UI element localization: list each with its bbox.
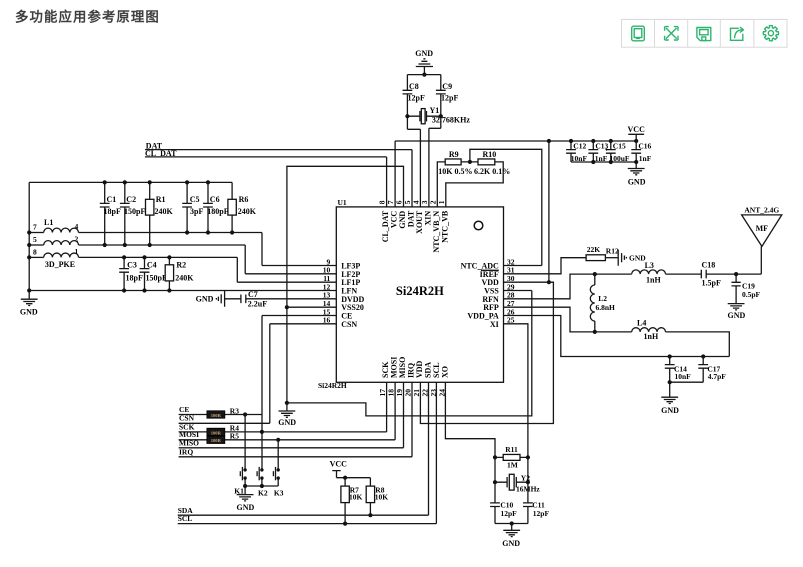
svg-text:GND: GND [502,539,520,548]
svg-text:100R: 100R [211,413,222,418]
crystal Y1 32.768KHz [407,115,440,117]
svg-text:L4: L4 [637,318,646,327]
svg-text:XI: XI [490,320,499,329]
capacitor C3 18pF [123,257,125,290]
svg-text:GND: GND [278,418,296,427]
svg-text:10K: 10K [349,493,363,502]
svg-text:SCL: SCL [178,514,193,523]
toolbar frame [622,19,788,47]
node: VCC rail junction x=593.3 [591,139,595,143]
svg-text:C1: C1 [107,195,117,204]
wire: pin 20 IRQ riser [411,382,413,457]
wire: DAT riser to pin 5 [411,150,413,207]
button K1 [243,468,246,471]
svg-text:ANT_2.4G: ANT_2.4G [744,206,779,215]
svg-text:R12: R12 [606,246,619,255]
wire: VDD riser from VCC rail to pin 30 [548,141,550,282]
capacitor C5 3pF [186,182,188,232]
capacitor C6 180pF [207,182,209,232]
svg-text:240K: 240K [238,207,257,216]
svg-text:12pF: 12pF [408,94,425,103]
svg-text:R1: R1 [156,195,166,204]
svg-text:CSN: CSN [341,320,357,329]
svg-text:C16: C16 [638,142,651,151]
svg-text:C18: C18 [702,261,716,270]
svg-text:NTC_VB: NTC_VB [440,210,449,243]
capacitor C14 10nF [668,354,672,358]
svg-text:1nH: 1nH [644,332,659,341]
svg-text:150pF: 150pF [124,207,145,216]
inductor L2 6.8nH [593,272,597,276]
svg-text:C3: C3 [127,260,137,269]
resistor R8 10K [369,478,371,516]
wire: pin 26 VDD_PA to C14/C17 row [504,316,730,357]
node: VCC rail junction x=636.2 [634,139,638,143]
svg-text:Y2: Y2 [521,474,530,483]
svg-text:U1: U1 [338,198,347,207]
svg-text:1.5pF: 1.5pF [702,278,721,287]
resistor R1 240K [149,182,151,245]
svg-text:MISO: MISO [179,438,199,447]
ground below C19 [728,304,745,310]
capacitor C1 18pF [104,182,106,245]
svg-text:GND: GND [728,311,746,320]
svg-text:5: 5 [33,235,37,244]
svg-text:C4: C4 [147,260,157,269]
wire: C10/C11 bottom tie [495,523,528,525]
svg-text:R11: R11 [505,445,518,454]
node: VCC rail junction x=610.8 [609,139,613,143]
resistor R9 10K 0.5% [437,162,445,207]
svg-text:1: 1 [437,200,446,204]
svg-text:+: + [605,144,609,153]
wire: Y1 right branch to pin 3 XIN [429,128,441,207]
svg-text:100R: 100R [211,438,222,443]
wire: CL_DAT riser to pin 8 [386,157,388,207]
svg-text:1M: 1M [507,461,518,470]
svg-text:GND: GND [20,307,38,316]
wire: L3 to C18 [666,273,702,275]
svg-text:C15: C15 [613,142,626,151]
svg-text:C5: C5 [190,195,200,204]
wire: pin 11 LF1P row [237,281,336,283]
capacitor C16 1nF [635,141,637,162]
capacitor C2 150pF [124,182,126,245]
capacitor C10 12pF [494,482,496,523]
button K3 [277,468,280,471]
svg-text:C6: C6 [210,195,220,204]
svg-text:16: 16 [323,316,331,325]
crystal Y2 16MHz [494,457,496,482]
ground below IC left [286,403,288,411]
wire: pin 16 CSN row [270,323,337,325]
svg-text:24: 24 [437,389,446,397]
ground below C16 [635,162,637,169]
wire: button ground rail [245,478,278,486]
svg-text:180pF: 180pF [207,207,228,216]
wire: C14/C17 bottom tie [670,381,704,383]
svg-text:IRQ: IRQ [179,447,193,456]
resistor R12 22K [586,255,605,261]
ground below buttons [244,486,246,495]
wire: R9/R10 junction to pin 32 NTC_ADC [468,160,472,164]
wire: pin 9 LF3P row [262,265,336,267]
antenna ANT_2.4G MF [760,246,762,274]
svg-text:VCC: VCC [330,459,348,468]
icon: mobile preview [632,26,645,41]
svg-text:18pF: 18pF [104,207,121,216]
wire: LF top rail [29,181,232,183]
capacitor C8 12pF [406,75,408,130]
wire: pin 10 LF2P row [245,273,336,275]
wire: K3 dropper [277,440,279,470]
wire: pin 15 CE row [262,315,336,317]
ground bottom left [21,299,38,305]
svg-text:R5: R5 [230,432,239,441]
svg-text:GND: GND [661,406,679,415]
svg-text:C9: C9 [442,82,452,91]
resistor R2 240K [168,257,170,290]
capacitor C15 100uF (polarized) [610,141,612,162]
capacitor C19 0.5pF [735,274,737,304]
wire: GND rail below IC (pin29 VSS tie) [287,291,532,416]
wire: L4 right down to PA row [666,332,730,357]
svg-text:10nF: 10nF [675,372,692,381]
svg-text:3pF: 3pF [190,207,203,216]
svg-text:25: 25 [507,316,515,325]
svg-text:XO: XO [440,366,449,378]
svg-text:MF: MF [756,224,769,233]
wire: VSS20 pin 14 tap [285,305,289,309]
svg-text:0.5pF: 0.5pF [742,290,761,299]
svg-text:Si24R2H: Si24R2H [396,284,444,298]
svg-text:R10: R10 [483,150,497,159]
svg-text:1nH: 1nH [646,275,661,284]
wire: pin 24 XO route [445,382,495,457]
wire: K1 dropper [244,415,246,470]
svg-text:Si24R2H: Si24R2H [318,381,347,390]
wire: decoupling bottom rail [571,161,636,163]
op-amp U1 Si24R2H (main IC body) [336,207,503,382]
wire: pin 31 IREF to R12 [504,258,587,274]
icon: expand arrows [665,27,678,40]
capacitor C11 12pF [527,507,529,524]
wire: Y1 left branch to pin 4 XOUT [407,129,420,207]
button K2 [260,468,263,471]
wire: pin 25 XI riser down [504,324,528,503]
inductor L3 1nH [632,270,666,274]
svg-text:GND: GND [415,49,433,58]
svg-text:C7: C7 [248,290,258,299]
svg-text:6.8nH: 6.8nH [596,303,616,312]
node: VCC rail junction x=548.9 [547,139,551,143]
wire: pin 22 SDA riser [428,382,430,515]
svg-text:GND: GND [196,295,214,304]
wire: pin 28 RFN to L3 row [504,274,632,299]
svg-text:32.768KHz: 32.768KHz [432,115,470,124]
svg-text:18pF: 18pF [126,274,143,283]
ground below C14 [669,382,671,397]
resistor R11 1M [495,456,528,458]
icon: settings gear [763,26,778,41]
svg-text:240K: 240K [155,207,174,216]
svg-text:4.7pF: 4.7pF [708,372,727,381]
svg-text:K3: K3 [274,489,284,498]
wire: pin 18 MOSI riser [394,382,396,440]
wire: C8/C9 top tie [407,74,440,76]
svg-text:Y1: Y1 [430,106,440,115]
resistor R6 240K [231,182,233,232]
svg-text:12pF: 12pF [501,509,518,518]
svg-text:8: 8 [33,247,37,256]
svg-text:CE: CE [179,405,189,414]
wire: pin 6 GND route [287,166,404,403]
svg-text:22K: 22K [587,245,601,254]
svg-text:12pF: 12pF [533,509,550,518]
svg-text:多功能应用参考原理图: 多功能应用参考原理图 [15,9,160,25]
capacitor C18 1.5pF [701,270,706,279]
capacitor C4 150pF [144,257,146,290]
wire: pin 17 SCK riser [386,382,388,432]
icon: save floppy [697,28,711,41]
svg-text:6.2K 0.1%: 6.2K 0.1% [474,167,510,176]
wire: CE riser to pin 15 / K2 dropper [261,316,263,470]
svg-text:VCC: VCC [628,125,646,134]
wire: LFN rail (pin 12) [29,290,336,292]
resistor R10 6.2K 0.1% [461,161,478,163]
svg-text:C12: C12 [573,142,586,151]
wire: VCC rail [395,140,636,142]
inductor L4 1nH [595,331,632,333]
svg-text:R2: R2 [176,260,186,269]
svg-text:K2: K2 [258,489,268,498]
capacitor C9 12pF [440,75,442,129]
wire: LF left vertical to ground [28,182,30,299]
svg-text:150pF: 150pF [146,274,167,283]
svg-text:7: 7 [33,223,37,232]
wire: pin 27 RFP to L4 row [504,307,595,332]
ground below Y2 caps [511,524,513,531]
svg-text:2.2uF: 2.2uF [248,300,267,309]
capacitor C12 10nF [570,141,572,162]
svg-text:12pF: 12pF [441,94,458,103]
svg-text:R3: R3 [230,406,239,415]
svg-text:3D_PKE: 3D_PKE [45,260,75,269]
svg-text:GND: GND [237,503,255,512]
svg-text:C8: C8 [409,82,419,91]
node: IREF overline [481,269,499,271]
ground (sideways) right of R12 [605,257,618,259]
svg-text:C2: C2 [126,195,136,204]
wire: VDD jog down to pin 21 [420,282,553,423]
node: VCC rail junction x=571.0 [569,139,573,143]
capacitor C17 4.7pF [701,354,705,358]
wire: pin 7 VCC riser [394,141,396,207]
wire: C18 to antenna node [706,273,761,275]
svg-text:10K: 10K [375,493,389,502]
svg-text:L1: L1 [44,218,53,227]
resistor R7 10K [344,478,346,524]
svg-text:240K: 240K [175,274,194,283]
icon: share/export [731,27,744,40]
wire: pin 23 SCL riser [435,382,437,523]
svg-text:16MHz: 16MHz [516,485,540,494]
wire: pull-up tops tie [337,477,371,479]
capacitor C13 1nF [592,141,594,162]
svg-text:L3: L3 [645,261,654,270]
svg-text:R9: R9 [449,150,459,159]
svg-text:100R: 100R [211,430,222,435]
wire: R10 right to pin 1 NTC_VB [446,162,503,207]
svg-text:GND: GND [628,177,646,186]
svg-text:10K 0.5%: 10K 0.5% [438,167,472,176]
svg-text:R6: R6 [239,195,249,204]
wire: pin 19 MISO riser [403,382,405,448]
svg-text:L2: L2 [598,294,607,303]
svg-text:1nF: 1nF [639,154,652,163]
